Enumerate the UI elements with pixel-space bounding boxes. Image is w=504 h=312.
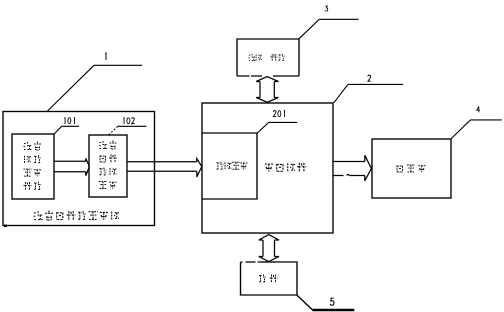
text box5 接口 [259,275,278,283]
box 3: 控制面板 [237,39,299,76]
arrow 101 to 102 (hollow) [54,158,89,175]
text box4 显示器 [397,165,426,172]
label 5 [297,295,354,310]
text 102 line3 处理 [100,168,117,176]
text 101 line3 采集 [24,169,42,176]
arrow box2/box5 vertical double head (hollow) [259,235,279,262]
box 2 outer: 点歌主机 [202,103,333,233]
text 102 line4 单元 [99,182,117,189]
text 101 line1 语音 [24,142,42,151]
arrow box2 to box4 (hollow) [333,155,371,181]
box 4: 显示器 [372,139,451,198]
text box3 [248,54,284,61]
text 102 line1 语音 [99,141,117,150]
box 101: 语音信号采集单元 [12,134,54,199]
box 201: 接口电路 [203,133,258,199]
label 101 [54,118,79,135]
label 102 [109,118,147,135]
text 101 line4 单元 [24,182,42,190]
label 201 [257,111,297,133]
text box2 点歌主机 [265,163,306,172]
text 101 line2 信号 [25,155,42,163]
text 201 接口电路 [217,162,248,170]
text 102 line2 识别 [100,155,117,163]
box 1 outer: 语音识别控制电路 [3,112,155,226]
label 1 [47,53,142,111]
box 102: 语音识别处理单元 [89,135,127,197]
label 4 [451,107,502,139]
caption 语音识别控制电路 [34,211,119,221]
label 2 [334,75,403,103]
arrow box3/box2 vertical double head (hollow) [256,77,278,103]
label 3 [299,6,359,39]
corner blot at box1 bottom-left [4,225,7,228]
box 5: 接口 [241,262,298,295]
arrow 102 to box2 (hollow) [127,159,202,177]
